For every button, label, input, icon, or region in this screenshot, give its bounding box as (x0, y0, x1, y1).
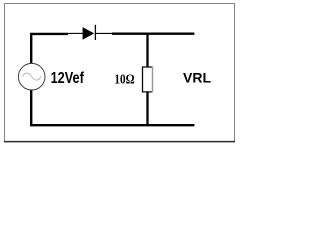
svg-text:VRL: VRL (183, 70, 211, 86)
AC source V1 (sine source) (18, 63, 45, 90)
label VRL (load voltage) (183, 70, 211, 86)
resistor RL 10Ω (box symbol) (142, 67, 152, 93)
diode D1 (68, 25, 112, 40)
label 12Vef (source value) (51, 70, 85, 87)
label 10Ω (resistor value) (114, 73, 134, 88)
wire from top rail down to resistor (node junction) (146, 33, 148, 67)
bottom rail wire and left corner up to source bottom (31, 90, 194, 125)
wire from resistor bottom to bottom rail (146, 92, 148, 126)
svg-text:12Vef: 12Vef (51, 70, 85, 87)
svg-text:10Ω: 10Ω (114, 73, 134, 88)
wire from source top to diode anode (top-left corner) (31, 34, 68, 64)
wire from diode cathode to right end (top rail) (112, 33, 194, 35)
